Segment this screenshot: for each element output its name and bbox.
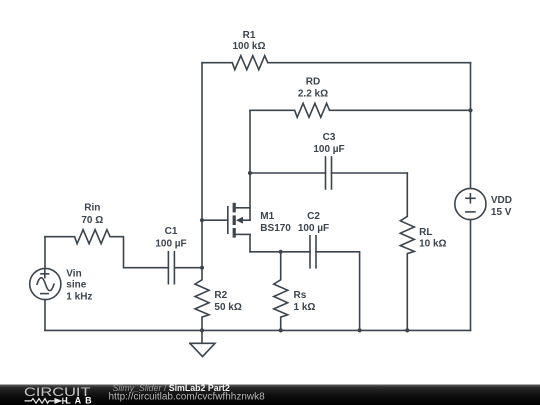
resistor RD [250,103,471,117]
svg-text:R2: R2 [214,290,227,301]
voltage source Vin [30,268,61,299]
label RL [419,227,446,250]
svg-text:1 kΩ: 1 kΩ [294,302,316,313]
svg-text:15 V: 15 V [491,207,512,218]
wire: bottom rail [45,329,471,331]
capacitor C1 [168,252,202,284]
svg-text:RD: RD [306,77,320,88]
resistor RL [400,173,414,330]
node C2-rail junction [358,328,362,332]
svg-text:C2: C2 [307,211,320,222]
capacitor C2 [310,236,360,331]
svg-text:C1: C1 [165,226,178,237]
svg-text:C3: C3 [323,132,336,143]
resistor R2 [195,268,209,331]
label C2 [298,211,329,234]
logo squiggle resistor-diode [25,398,67,404]
capacitor C3 [250,157,407,189]
svg-text:BS170: BS170 [260,223,291,234]
svg-text:VDD: VDD [491,195,512,206]
label R2 [214,290,241,313]
svg-text:1 kHz: 1 kHz [66,291,92,302]
svg-text:Rin: Rin [84,203,100,214]
wire: right vertical top [470,63,472,189]
label RD [298,77,328,100]
svg-text:RL: RL [419,227,432,238]
voltage source VDD [455,188,486,219]
wire: bias column x=202 from R1 down to C1 node [201,63,203,268]
svg-text:70 Ω: 70 Ω [81,215,103,226]
node RD-VDD junction [468,108,472,112]
node gate junction [200,218,204,222]
label R1 [232,30,265,52]
svg-text:50 kΩ: 50 kΩ [214,302,241,313]
wire: right vertical bottom [470,220,472,331]
svg-text:LAB: LAB [65,396,96,405]
svg-text:100 kΩ: 100 kΩ [232,41,265,52]
svg-text:Rs: Rs [294,290,307,301]
label VDD [491,195,512,218]
label C1 [155,226,186,249]
label M1 [260,211,291,234]
svg-text:http://circuitlab.com/cvcfwfhh: http://circuitlab.com/cvcfwfhhznwk8 [109,391,266,402]
label Rs [294,290,316,313]
node C1-R2 junction [200,266,204,270]
svg-text:100 µF: 100 µF [155,238,186,249]
node drain-C3 junction [248,171,252,175]
footer bar [0,383,540,405]
svg-text:R1: R1 [243,30,256,41]
node Rs-rail junction [279,328,283,332]
wire: left vertical Vin top [44,237,46,269]
resistor R1 [202,56,471,70]
wire: left vertical Vin bottom [44,300,46,331]
svg-text:sine: sine [66,280,86,291]
resistor Rin [45,230,168,268]
wire: source row [250,251,310,253]
svg-text:M1: M1 [260,211,274,222]
transistor M1 [202,203,250,252]
label Rin [81,203,103,226]
node ground junction [200,328,204,332]
label C3 [313,132,344,155]
ground [190,330,215,356]
label Vin [66,268,92,302]
wire: drain column [249,110,251,208]
node RL-rail junction [405,328,409,332]
resistor Rs [274,252,288,331]
node source-Rs junction [279,250,283,254]
svg-text:100 µF: 100 µF [298,223,329,234]
svg-text:10 kΩ: 10 kΩ [419,239,446,250]
svg-text:100 µF: 100 µF [313,144,344,155]
svg-text:Vin: Vin [66,268,81,279]
svg-text:2.2 kΩ: 2.2 kΩ [298,89,328,100]
